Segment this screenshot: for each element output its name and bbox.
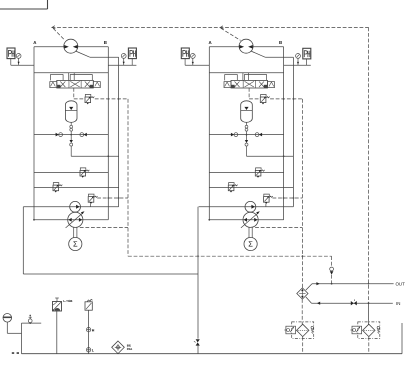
svg-text:IN: IN	[396, 301, 400, 306]
svg-text:OUT: OUT	[396, 282, 406, 287]
svg-text:H: H	[92, 328, 95, 332]
svg-text:B: B	[104, 40, 107, 45]
svg-text:B: B	[279, 40, 282, 45]
svg-text:Σ: Σ	[73, 240, 78, 249]
svg-text:Σ: Σ	[248, 240, 253, 249]
svg-text:35A: 35A	[127, 347, 133, 351]
svg-text:L-TGB: L-TGB	[63, 299, 73, 303]
